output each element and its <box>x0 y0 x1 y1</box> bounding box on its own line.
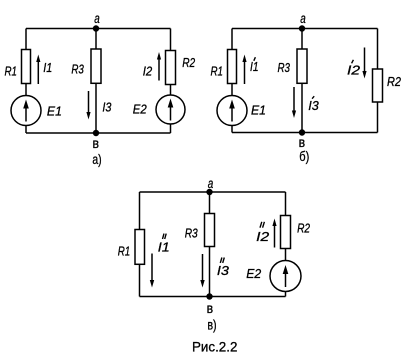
wire left-branch lower (circuit v) <box>139 264 141 296</box>
svg-text:R3: R3 <box>185 225 199 240</box>
svg-text:в: в <box>93 135 100 151</box>
svg-text:R2: R2 <box>297 220 311 235</box>
wire mid-branch upper (circuit v) <box>209 192 211 214</box>
svg-text:а): а) <box>92 151 101 167</box>
svg-text:в): в) <box>207 317 216 333</box>
resistor R3 (circuit b) <box>297 49 307 83</box>
label I'2 prime tick (circuit b) <box>352 60 354 64</box>
label I''3 double prime ticks (circuit v) <box>220 258 224 263</box>
node v junction dot (circuit v) <box>206 293 212 299</box>
source E2 (circuit v) <box>270 261 301 292</box>
wire right-branch upper (circuit v) <box>285 192 287 216</box>
current arrow I''1 (circuit v) <box>150 254 154 288</box>
wire E1 to bottom (circuit a) <box>25 126 27 134</box>
current arrow I1 (circuit a) <box>36 55 40 85</box>
svg-text:R3: R3 <box>71 61 84 76</box>
source E1 (circuit b) <box>217 96 247 126</box>
svg-text:I1: I1 <box>250 59 259 74</box>
svg-text:a: a <box>300 10 306 26</box>
resistor R1 (circuit a) <box>22 50 31 84</box>
wire right-branch upper (circuit b) <box>377 29 379 70</box>
current arrow I'3 (circuit b) <box>292 87 296 118</box>
wire mid-branch lower (circuit b) <box>301 83 303 132</box>
svg-text:I2: I2 <box>143 63 153 78</box>
wire mid-branch upper (circuit a) <box>95 29 97 50</box>
wire bottom (circuit v) <box>140 296 286 298</box>
wire E1 to bottom (circuit b) <box>231 126 233 133</box>
current arrow I''3 (circuit v) <box>200 254 204 288</box>
wire bottom (circuit b) <box>232 132 378 134</box>
wire left-branch upper (circuit b) <box>231 29 233 50</box>
wire mid-branch lower (circuit a) <box>95 83 97 133</box>
wire right-branch lower (circuit b) <box>377 102 379 133</box>
wire mid-branch upper (circuit b) <box>301 29 303 50</box>
wire E2 to bottom (circuit v) <box>285 291 287 297</box>
svg-text:E2: E2 <box>246 266 262 281</box>
resistor R1 (circuit v) <box>135 230 145 265</box>
svg-text:I3: I3 <box>217 263 230 278</box>
svg-text:б): б) <box>299 148 309 164</box>
svg-text:R1: R1 <box>4 63 17 78</box>
node a junction dot (circuit v) <box>206 189 212 195</box>
svg-text:I2: I2 <box>347 62 361 77</box>
svg-text:E2: E2 <box>133 102 148 117</box>
svg-text:E1: E1 <box>47 104 62 119</box>
label I''2 double prime ticks (circuit v) <box>260 222 264 228</box>
current arrow I''2 (circuit v) <box>272 219 276 248</box>
svg-text:I3: I3 <box>308 98 319 113</box>
wire left-branch upper (circuit a) <box>25 29 27 50</box>
wire top (circuit v) <box>140 191 286 193</box>
current arrow I3 (circuit a) <box>86 91 90 120</box>
node a junction dot (circuit b) <box>299 25 305 31</box>
svg-text:I1: I1 <box>158 240 170 255</box>
wire R1 to E1 (circuit b) <box>231 84 233 96</box>
resistor R2 (circuit a) <box>166 51 176 85</box>
wire E2 to bottom (circuit a) <box>170 124 172 133</box>
wire R2 to E2 (circuit a) <box>170 85 172 96</box>
node a junction dot (circuit a) <box>93 25 99 31</box>
node v junction dot (circuit a) <box>93 130 99 136</box>
wire R2 to E2 (circuit v) <box>285 249 287 262</box>
svg-text:R2: R2 <box>182 55 196 70</box>
wire mid-branch lower (circuit v) <box>209 247 211 297</box>
source E2 (circuit a) <box>156 95 185 124</box>
wire bottom (circuit a) <box>26 132 171 134</box>
svg-text:a: a <box>208 175 214 191</box>
svg-text:I1: I1 <box>43 60 52 75</box>
svg-text:Рис.2.2: Рис.2.2 <box>192 339 238 355</box>
svg-text:a: a <box>94 10 100 26</box>
svg-text:I2: I2 <box>256 229 270 244</box>
current arrow I'2 (circuit b) <box>362 48 366 79</box>
resistor R2 (circuit b) <box>373 69 383 102</box>
wire left-branch upper (circuit v) <box>139 192 141 230</box>
svg-text:E1: E1 <box>251 103 266 118</box>
resistor R1 (circuit b) <box>228 50 237 84</box>
svg-text:R1: R1 <box>210 63 223 78</box>
label I'3 prime tick (circuit b) <box>312 96 314 99</box>
svg-text:R3: R3 <box>277 60 290 75</box>
resistor R3 (circuit v) <box>205 214 215 247</box>
wire top (circuit b) <box>232 28 378 30</box>
wire right-branch upper (circuit a) <box>170 29 172 51</box>
resistor R3 (circuit a) <box>91 49 101 83</box>
svg-text:R2: R2 <box>387 74 402 89</box>
resistor R2 (circuit v) <box>281 216 291 249</box>
svg-text:в: в <box>207 300 214 316</box>
wire R1 to E1 (circuit a) <box>25 84 27 96</box>
current arrow I'1 (circuit b) <box>242 55 246 85</box>
current arrow I2 (circuit a) <box>157 52 161 81</box>
label I'1 prime tick (circuit b) <box>254 57 256 61</box>
label I''1 double prime ticks (circuit v) <box>163 234 167 239</box>
wire top (circuit a) <box>26 28 171 30</box>
svg-text:R1: R1 <box>118 244 131 259</box>
svg-text:I3: I3 <box>102 99 112 114</box>
node v junction dot (circuit b) <box>299 129 305 135</box>
source E1 (circuit a) <box>11 96 41 126</box>
